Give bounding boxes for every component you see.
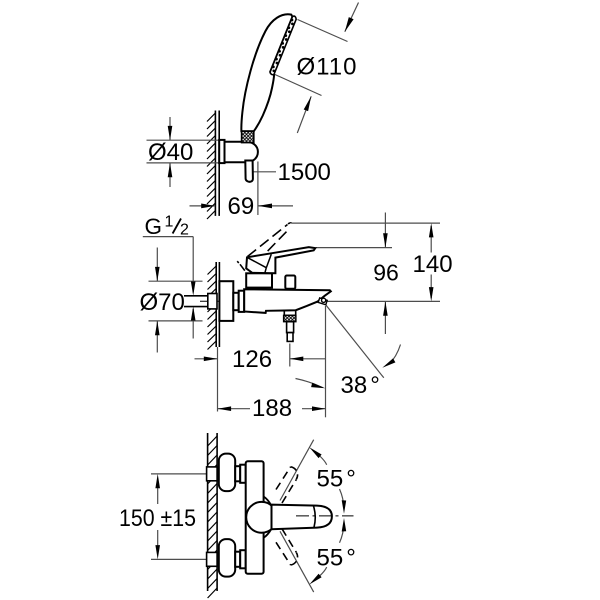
svg-text:Ø70: Ø70 — [140, 289, 185, 316]
svg-text:Ø40: Ø40 — [148, 139, 193, 166]
svg-text:1500: 1500 — [278, 159, 331, 186]
svg-text:55°: 55° — [317, 466, 356, 493]
svg-text:Ø110: Ø110 — [297, 54, 358, 81]
svg-text:188: 188 — [252, 395, 292, 422]
svg-text:55°: 55° — [317, 545, 356, 572]
svg-text:1: 1 — [165, 214, 174, 231]
svg-text:126: 126 — [232, 346, 272, 373]
svg-text:69: 69 — [228, 193, 255, 220]
svg-text:140: 140 — [413, 251, 453, 278]
svg-text:150 ±15: 150 ±15 — [119, 505, 196, 532]
svg-text:38°: 38° — [341, 372, 380, 399]
svg-text:G: G — [145, 214, 163, 239]
svg-text:96: 96 — [373, 260, 399, 286]
svg-text:2: 2 — [180, 222, 189, 239]
